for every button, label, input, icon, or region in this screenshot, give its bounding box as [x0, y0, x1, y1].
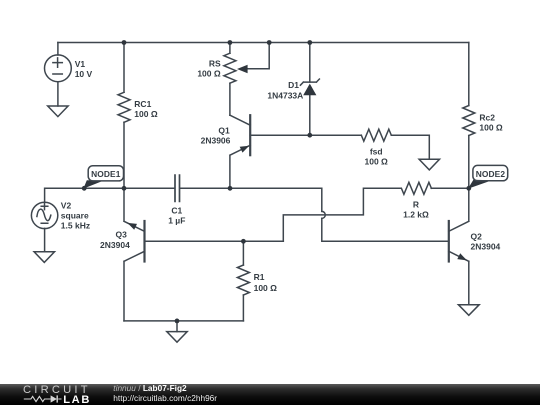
junction: NODE1 flag tail [82, 186, 87, 191]
svg-text:NODE2: NODE2 [476, 169, 506, 179]
svg-text:2N3904: 2N3904 [471, 241, 501, 251]
junction: Q3 base wire / R1 [241, 239, 246, 244]
svg-text:D1: D1 [288, 80, 299, 90]
junction: NODE1 wire / RC1 / Q3 emitter [122, 186, 127, 191]
svg-text:1.2 kΩ: 1.2 kΩ [403, 210, 429, 220]
resistor RC1 [118, 43, 158, 189]
svg-text:C1: C1 [171, 205, 182, 215]
voltage source V2 (square 1.5 kHz) [31, 188, 90, 252]
ground (bottom middle) [167, 332, 187, 343]
resistor R1 [237, 241, 277, 321]
svg-text:RC1: RC1 [134, 99, 151, 109]
resistor Rc2 [463, 43, 503, 189]
node NODE2 flag [468, 165, 508, 188]
footer bar [0, 384, 540, 405]
junction: top rail / D1 [307, 40, 312, 45]
transistor Q2 (NPN 2N3904) [449, 188, 501, 304]
svg-text:100 Ω: 100 Ω [254, 283, 278, 293]
junction: NODE2 - R / Rc2 / Q2 collector [466, 186, 471, 191]
resistor R (1.2 k) [401, 182, 468, 219]
svg-text:1 µF: 1 µF [168, 215, 185, 225]
transistor Q3 (NPN 2N3904) [100, 188, 283, 321]
wire: top supply rail [58, 42, 469, 44]
ground (below V1) [48, 106, 68, 117]
wire: NODE1 net (V2 to C1 to corner, down, to Q2 base) [45, 188, 322, 211]
resistor fsd [310, 129, 430, 166]
junction: D1 / Q1 base / fsd [307, 133, 312, 138]
svg-text:100 Ω: 100 Ω [365, 157, 389, 167]
junction: top rail / RS wiper [267, 40, 272, 45]
junction: top rail / RC1 [122, 40, 127, 45]
wire: Q3 base to R to NODE2 (with crossover) [283, 188, 401, 241]
footer title text [113, 384, 186, 394]
svg-text:Q2: Q2 [471, 232, 483, 242]
junction: bottom rail / ground [175, 319, 180, 324]
svg-text:100 Ω: 100 Ω [479, 123, 503, 133]
zener diode D1 [267, 43, 319, 136]
svg-text:Q3: Q3 [116, 230, 128, 240]
svg-text:R1: R1 [254, 272, 265, 282]
svg-text:2N3906: 2N3906 [201, 135, 231, 145]
svg-text:100 Ω: 100 Ω [197, 69, 221, 79]
node NODE1 flag [83, 166, 123, 189]
ground (below V2) [34, 252, 54, 263]
voltage source V1 [45, 43, 93, 107]
svg-text:RS: RS [209, 59, 221, 69]
ground (right of fsd) [419, 159, 439, 170]
ground (below Q2) [458, 305, 479, 316]
svg-text:fsd: fsd [370, 147, 383, 157]
CircuitLab logo [23, 385, 91, 396]
svg-text:1N4733A: 1N4733A [267, 91, 303, 101]
svg-text:100 Ω: 100 Ω [134, 109, 158, 119]
svg-text:Q1: Q1 [218, 125, 230, 135]
wire: bottom emitter rail [124, 320, 243, 322]
svg-text:R: R [413, 200, 419, 210]
rheostat RS [197, 43, 269, 116]
capacitor C1 [168, 174, 185, 225]
junction: NODE1 wire / Q1 emitter [228, 186, 233, 191]
svg-text:Rc2: Rc2 [479, 112, 495, 122]
transistor Q1 (PNP 2N3906) [201, 115, 310, 188]
junction: top rail / RS [228, 40, 233, 45]
